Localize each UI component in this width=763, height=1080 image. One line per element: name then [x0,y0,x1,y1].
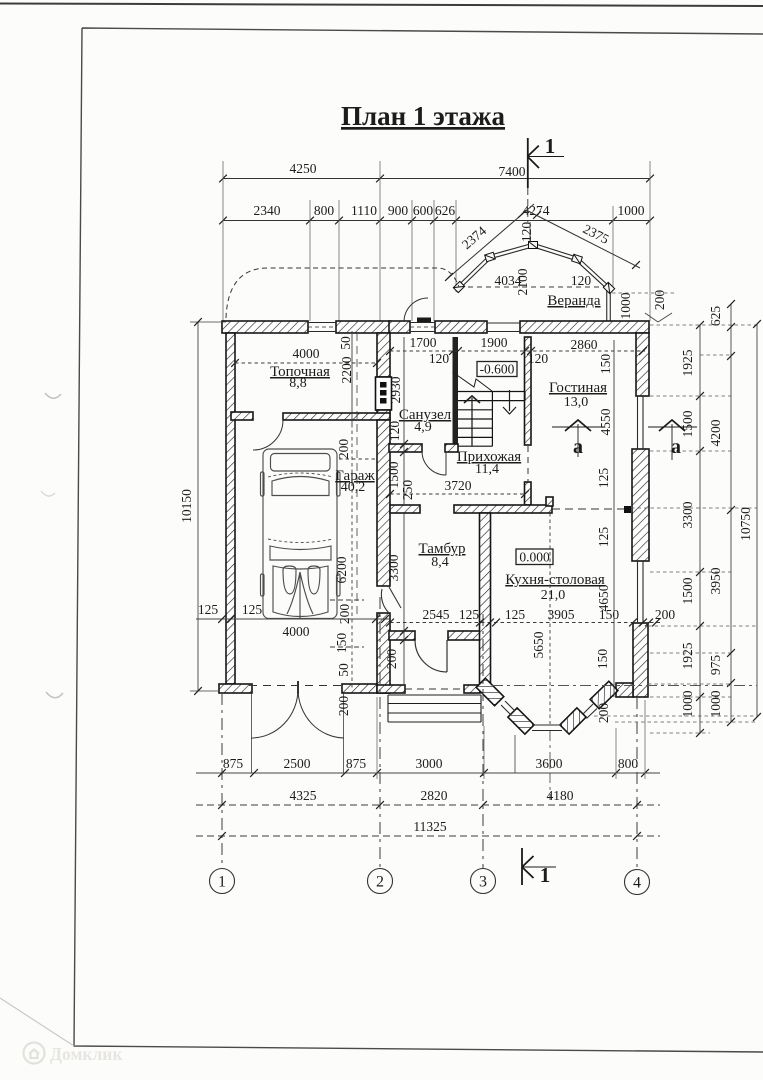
wall garage/boiler horizontal [283,413,390,420]
section marker a right [648,420,697,460]
svg-text:6200: 6200 [334,556,349,583]
kitchen centre dash extension [549,731,551,800]
outer wall top segment 5 (living room) [520,321,649,333]
svg-text:3: 3 [479,874,487,891]
margin mark 2 [41,491,55,496]
room label Гостиная [549,380,607,410]
svg-text:10150: 10150 [179,489,194,523]
svg-text:1700: 1700 [410,335,437,350]
room label Прихожая [457,449,521,477]
tambour inner wall left piece [389,631,415,640]
living room door opening dashes [527,446,529,482]
outer wall top-left segment [222,321,308,333]
axis dash line through bay top [492,685,757,687]
door bathroom arc [422,451,446,475]
svg-text:626: 626 [435,203,456,218]
dimension row 11325 [196,819,660,840]
svg-text:Кухня-столовая: Кухня-столовая [505,572,605,588]
dimension 10750 right [738,320,761,721]
svg-text:10750: 10750 [738,507,753,541]
room label Кухня-столовая [505,572,605,603]
bay corner block 3 [560,708,586,734]
svg-text:3720: 3720 [445,478,472,493]
veranda railing posts [453,242,614,294]
stairs treads [458,392,525,447]
svg-text:200: 200 [655,607,676,622]
gas meter box [376,377,392,410]
svg-text:120: 120 [528,351,549,366]
svg-text:800: 800 [618,756,639,771]
axis circle 1 [210,869,235,894]
dimension 3720 hall [386,478,529,498]
tambour top-left wall piece [390,505,420,513]
outer wall top segment 2 [336,321,390,333]
svg-text:2500: 2500 [284,756,311,771]
svg-text:125: 125 [596,527,611,548]
node extension line [529,222,531,243]
svg-text:120: 120 [429,351,450,366]
door tambour outside [381,587,401,613]
level mark 0.000 [516,549,553,565]
door boiler room arc [253,420,283,450]
svg-text:Веранда: Веранда [547,293,600,309]
svg-text:50: 50 [338,336,353,350]
svg-text:875: 875 [346,756,367,771]
section axis dashes below mark [527,188,529,222]
extension lines bottom [377,697,645,779]
axis circle 2 [368,869,393,894]
dimension 4650 kitchen right vertical [595,340,614,723]
svg-text:1925: 1925 [680,349,695,376]
svg-text:3600: 3600 [536,756,563,771]
svg-text:1500: 1500 [680,410,695,437]
svg-text:7400: 7400 [499,164,526,179]
stairs break line [453,372,493,391]
garage gate arcs [249,681,344,773]
svg-text:125: 125 [596,468,611,489]
tambour right wall [480,513,491,683]
svg-text:2930: 2930 [388,376,403,403]
svg-text:120: 120 [571,273,592,288]
svg-text:875: 875 [223,756,244,771]
svg-text:975: 975 [708,655,723,676]
dashed gap line above car [339,458,377,460]
svg-text:40,2: 40,2 [341,480,366,495]
dimension row 875/2500/875/3000/3600/800 [196,756,660,777]
svg-text:4180: 4180 [547,788,574,803]
svg-text:2860: 2860 [571,337,598,352]
dimension row 2340..626/4274/1000 [219,203,654,224]
interior wall garage right (vertical) [377,420,390,586]
svg-text:11325: 11325 [413,819,446,834]
veranda floor dashed line [459,286,609,288]
svg-text:1: 1 [545,134,556,158]
outer wall right lower block [633,623,648,697]
svg-text:3300: 3300 [680,501,695,528]
svg-text:250: 250 [400,480,415,501]
bathroom bottom wall right [445,444,458,452]
entrance threshold dashes [405,688,464,690]
veranda railing polyline [459,245,609,325]
living room wall stub lower [525,482,532,505]
outer wall garage bottom right piece [342,684,390,693]
kitchen-living opening dashes [552,508,624,510]
dimension 4000/125 garage [196,602,390,639]
svg-text:125: 125 [459,607,480,622]
outer wall left [226,333,235,684]
svg-text:200: 200 [336,696,351,717]
bay corner block 1 [476,678,504,706]
porch steps [388,695,481,722]
wall stub kitchen top right [546,497,553,506]
svg-text:125: 125 [198,602,219,617]
svg-text:1900: 1900 [481,335,508,350]
svg-text:4325: 4325 [290,788,317,803]
svg-text:1500: 1500 [680,577,695,604]
svg-text:200: 200 [596,703,611,724]
svg-text:4000: 4000 [283,624,310,639]
dimension 2545/125 tambour row [386,607,675,626]
dimension 4000 boiler room [231,346,381,367]
dimension chain right 2 [708,300,735,726]
section marker a left [552,420,605,457]
dimension 2930 bathroom vertical [386,337,415,505]
room label Санузел [399,407,452,435]
right dashed connectors [594,293,757,733]
opening stairs top [487,323,520,332]
dimension row 4250/7400 [219,161,654,182]
svg-text:150: 150 [595,649,610,670]
tambour bottom wall right piece [464,685,480,693]
garage right wall dims [330,331,364,716]
margin mark 1 [45,393,61,398]
section mark 1 bottom [522,848,556,885]
svg-text:50: 50 [336,663,351,677]
svg-text:13,0: 13,0 [564,395,589,410]
room label Топочная [270,364,330,391]
svg-text:5650: 5650 [531,631,546,658]
svg-text:Домклик: Домклик [50,1044,123,1064]
stairs down arrow [503,390,516,414]
level mark -0.600 [477,362,517,377]
stairs up chevron [464,396,480,403]
svg-text:4650: 4650 [596,584,611,611]
svg-text:1000: 1000 [618,203,645,218]
axis circle 4 [625,870,650,895]
outer wall right middle block [632,449,649,561]
veranda threshold bar [417,318,431,323]
svg-text:3300: 3300 [386,554,401,581]
axis dashed lines [222,597,637,868]
outer wall bottom-left corner [219,684,252,693]
svg-text:600: 600 [413,203,434,218]
door veranda arc [404,298,428,322]
axis circle 3 [471,869,496,894]
svg-text:150: 150 [334,633,349,654]
dashed center line garage [356,333,358,619]
extension below bay left [514,735,516,773]
svg-text:Гостиная: Гостиная [549,380,607,396]
svg-text:а: а [573,436,583,458]
room label Гараж [335,468,375,495]
svg-text:21,0: 21,0 [541,588,566,603]
window boiler room top [308,323,336,332]
svg-text:200: 200 [337,604,352,625]
outer wall top segment 4 (over stairs) [435,321,487,333]
svg-text:200: 200 [384,649,399,670]
dimension chain right 1 [680,321,704,737]
svg-text:1000: 1000 [680,690,695,717]
svg-text:3905: 3905 [548,607,575,622]
dimension 3300 tambour vertical [384,513,408,685]
svg-text:-0.600: -0.600 [480,362,515,377]
outer wall right upper block [636,333,649,396]
svg-text:120: 120 [519,222,534,243]
svg-text:1: 1 [218,874,226,891]
corner crease bottom-left [0,998,74,1046]
interior wall tambour left lower [377,613,390,693]
dimension 200 rotated right of veranda [645,290,672,322]
svg-text:1000: 1000 [708,690,723,717]
scan edge line top [0,4,763,7]
outer wall bay corner right [616,683,633,697]
svg-text:План 1 этажа: План 1 этажа [341,101,506,131]
svg-text:2200: 2200 [339,356,354,383]
canopy dashed outline [226,268,459,318]
interior wall pillar (gas) [377,333,390,377]
svg-text:2545: 2545 [423,607,450,622]
window living room right [636,396,649,449]
svg-text:0.000: 0.000 [519,550,550,565]
room label Тамбур [419,541,466,570]
svg-text:125: 125 [505,607,526,622]
svg-text:1: 1 [540,863,551,887]
svg-text:4550: 4550 [598,408,613,435]
svg-text:4250: 4250 [290,161,317,176]
svg-text:3000: 3000 [416,756,443,771]
svg-text:8,4: 8,4 [431,555,449,570]
bathroom bottom wall left [389,444,422,452]
svg-text:2100: 2100 [515,268,530,295]
dimension 5650 kitchen vertical [531,513,550,724]
window bathroom top [410,323,435,332]
stair wall [453,337,459,446]
living room wall upper (vertical thin) [525,337,532,445]
svg-text:4200: 4200 [708,419,723,446]
svg-text:1500: 1500 [386,461,401,488]
watermark logo [24,1043,45,1064]
svg-text:200: 200 [336,439,351,460]
svg-text:1925: 1925 [680,642,695,669]
svg-text:3950: 3950 [708,567,723,594]
dimension 125 living room vertical [596,408,613,488]
tambour inner wall right piece [448,631,480,640]
svg-text:2: 2 [376,874,384,891]
svg-text:125: 125 [242,602,263,617]
svg-text:4,9: 4,9 [414,420,432,435]
dimension 2375 diagonal [528,211,640,269]
bay corner block 4 [590,681,618,708]
outer wall top segment 3 [389,321,410,333]
svg-text:900: 900 [388,203,409,218]
svg-text:8,8: 8,8 [289,376,307,391]
dimension row 4325/2820/4180 [196,788,660,809]
bay window glazing lines [501,701,597,731]
svg-text:1110: 1110 [351,203,377,218]
svg-text:11,4: 11,4 [475,462,499,477]
svg-text:2340: 2340 [254,203,281,218]
extension lines top [223,161,650,321]
dimension row 1700/120 bathroom [386,335,647,374]
car body [261,449,341,619]
door tambour inner arc [415,640,447,672]
svg-text:1000: 1000 [618,292,633,319]
svg-text:150: 150 [598,354,613,375]
dimension 10150 left [179,318,226,695]
dimension 2374 diagonal [445,204,534,281]
svg-text:120: 120 [387,421,402,442]
svg-text:а: а [671,436,681,458]
svg-text:625: 625 [708,306,723,327]
bay corner block 2 [508,708,534,734]
window kitchen right [636,561,649,623]
tambour bottom wall left piece [377,685,405,693]
section mark 1 top [527,138,564,188]
hall/kitchen horizontal wall [454,505,552,513]
svg-text:800: 800 [314,203,335,218]
wall stub boiler left [231,412,253,420]
svg-text:2820: 2820 [421,788,448,803]
column marker square [624,506,631,513]
svg-text:4: 4 [633,875,641,892]
interior wall below gas box [377,410,390,420]
margin mark 3 [46,692,63,698]
svg-text:4000: 4000 [293,346,320,361]
